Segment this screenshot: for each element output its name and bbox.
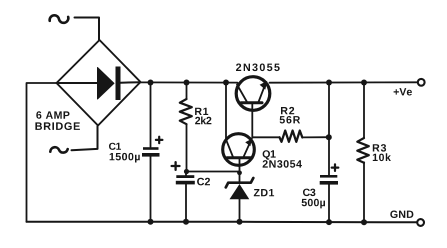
capacitor C2 xyxy=(172,162,195,222)
wire: top AC input to bridge top vertex xyxy=(75,18,100,41)
label C3 500µ xyxy=(302,189,325,209)
label R2 56R xyxy=(280,107,301,124)
label C1 1500µ xyxy=(109,143,140,163)
label GND xyxy=(390,211,413,219)
label R1 2k2 xyxy=(195,108,211,125)
resistor R3 xyxy=(357,83,369,223)
transistor Q1 2N3054 (driver) xyxy=(223,134,255,173)
label R3 10k xyxy=(373,144,391,161)
wire: output rail down to C3 xyxy=(328,83,330,176)
wire: bottom ground rail xyxy=(27,221,417,224)
node: R1 tap on top rail xyxy=(184,80,190,86)
transistor 2N3055 (series pass) xyxy=(236,77,270,138)
node: ZD1 on ground rail xyxy=(237,219,243,225)
bridge rectifier diamond xyxy=(57,40,141,126)
wire: output rail (emitter to +Ve) xyxy=(270,81,418,83)
node: C3 tap on output rail xyxy=(326,80,332,86)
label +Ve xyxy=(394,88,412,95)
label Q1 2N3054 xyxy=(263,150,302,168)
node: C2 on ground rail xyxy=(183,219,189,225)
wire: bridge left vertex to left rail down to bottom rail xyxy=(27,83,57,222)
label 2N3055 xyxy=(236,64,280,72)
wire: Q1 collector from top rail xyxy=(225,83,227,140)
node: Q1 collector tap on top rail xyxy=(223,80,229,86)
zener diode ZD1 xyxy=(226,173,254,222)
label ZD1 xyxy=(254,189,274,196)
label 6 AMP BRIDGE xyxy=(35,111,80,130)
terminal GND xyxy=(417,219,424,226)
AC source symbol (top ~) xyxy=(50,15,69,23)
resistor R1 xyxy=(180,83,192,172)
terminal +Ve xyxy=(418,79,425,86)
node: R3 on ground rail xyxy=(361,219,367,225)
label C2 xyxy=(197,178,210,186)
node: C1 on ground rail xyxy=(148,219,154,225)
node: C1 tap on top rail xyxy=(148,80,154,86)
node: R2 to output sense node xyxy=(326,134,332,140)
diode D1 inside bridge xyxy=(57,67,141,101)
capacitor C3 xyxy=(320,164,339,222)
wire: bottom AC input to bridge bottom vertex xyxy=(72,126,98,150)
resistor R2 xyxy=(252,131,328,142)
wire: top unregulated rail xyxy=(141,81,238,83)
capacitor C1 xyxy=(142,83,162,222)
AC source symbol (bottom ~) xyxy=(50,147,67,152)
wire: R1 bottom node to Q1 base node xyxy=(184,169,242,175)
node: C3 on ground rail xyxy=(326,219,332,225)
node: R3 tap on output rail xyxy=(361,80,367,86)
